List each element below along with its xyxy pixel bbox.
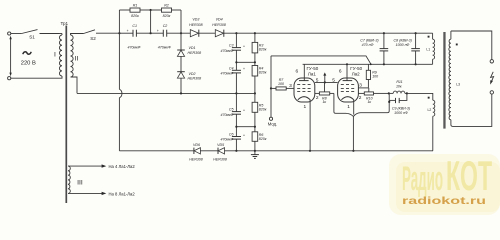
svg-text:+: + <box>243 133 245 137</box>
node gbus-C6 <box>235 150 237 152</box>
svg-text:820к: 820к <box>163 14 171 18</box>
node rail-R3 <box>254 32 256 34</box>
svg-text:HER308: HER308 <box>212 23 226 27</box>
node bus-R4 <box>254 92 256 94</box>
svg-text:5: 5 <box>332 78 335 84</box>
svg-text:820к: 820к <box>259 71 267 75</box>
resistor R9 <box>366 64 378 88</box>
wire: long vertical x=119.4 with hop over bus <box>119 10 122 151</box>
svg-text:Радио: Радио <box>402 159 443 198</box>
transformer Tr1 core <box>65 26 67 204</box>
svg-text:6: 6 <box>339 69 342 75</box>
capacitor C1 <box>127 24 141 49</box>
node bus-C4 <box>235 92 237 94</box>
svg-text:470мкФ: 470мкФ <box>220 113 233 117</box>
node rail-VD1 <box>180 32 182 34</box>
node R1-R2 <box>150 9 152 33</box>
watermark text Радио КОТ <box>402 152 492 199</box>
arrow to anode supply <box>323 72 326 82</box>
node rail-C3 <box>235 32 237 34</box>
tube La2 <box>332 64 362 110</box>
diode VD2 (vertical) <box>177 72 201 94</box>
svg-text:820к: 820к <box>259 107 267 111</box>
svg-text:820к: 820к <box>259 47 267 51</box>
220V double arrow <box>9 36 11 77</box>
svg-text:VD4: VD4 <box>216 18 223 22</box>
svg-text:HER308: HER308 <box>189 23 203 27</box>
node rail-C7 <box>383 32 385 34</box>
svg-text:VD3: VD3 <box>192 18 199 22</box>
wire pin5 La1-La2 <box>315 81 338 83</box>
antenna arrow <box>490 72 493 85</box>
capacitor C6 <box>220 127 245 151</box>
svg-text:L2: L2 <box>428 108 432 112</box>
terminal: AC input bottom <box>8 77 11 80</box>
wire: left vertical to Mod terminal <box>270 56 272 117</box>
svg-text:III: III <box>77 180 83 187</box>
svg-text:+: + <box>243 67 245 71</box>
node R10-choke <box>388 92 390 94</box>
svg-text:1000 пФ: 1000 пФ <box>396 43 410 47</box>
capacitor C5 <box>220 93 245 126</box>
capacitor C7 <box>360 33 388 64</box>
terminal RF out top <box>490 60 493 63</box>
node anode-C8 <box>415 63 417 65</box>
svg-text:КОТ: КОТ <box>446 152 492 199</box>
capacitor C8 <box>394 33 420 64</box>
node pin5 junction <box>324 81 326 83</box>
svg-text:220 В: 220 В <box>21 60 36 66</box>
resistor R6 <box>252 132 267 155</box>
svg-text:C2: C2 <box>163 24 168 28</box>
terminal: AC input top <box>8 32 11 35</box>
rung C3C4-R3R4 <box>235 53 256 66</box>
svg-text:470мкФ: 470мкФ <box>127 45 140 49</box>
svg-text:+: + <box>243 108 245 112</box>
svg-text:R2: R2 <box>164 4 169 8</box>
wire L3 bottom loop <box>451 94 492 126</box>
terminal Мод. <box>268 117 277 126</box>
svg-text:C4: C4 <box>229 66 234 70</box>
svg-text:C9 (КВИ-3): C9 (КВИ-3) <box>392 106 410 110</box>
wire: top terminal to S1 <box>11 33 22 35</box>
svg-text:1к: 1к <box>367 100 371 104</box>
wire choke node down <box>388 93 390 102</box>
winding L3 <box>449 31 460 120</box>
svg-text:820к: 820к <box>259 137 267 141</box>
node rail-C8 <box>415 32 417 34</box>
switch S2 <box>84 30 120 41</box>
resistor R7 <box>271 78 294 90</box>
svg-text:10к: 10к <box>396 85 402 89</box>
node bus-VD2 <box>180 92 182 94</box>
svg-text:1: 1 <box>347 104 350 110</box>
svg-text:C7 (КВИ-3): C7 (КВИ-3) <box>360 39 378 43</box>
resistor R5 <box>252 102 267 132</box>
output transformer core <box>443 32 445 129</box>
svg-text:470 пФ: 470 пФ <box>362 43 374 47</box>
resistor R8 <box>315 82 334 104</box>
node gbus-R6 <box>254 150 256 152</box>
diode VD3 <box>189 18 203 37</box>
svg-text:C8 (КВИ-3): C8 (КВИ-3) <box>394 39 412 43</box>
node Mod-R7 <box>270 87 272 89</box>
svg-text:HER308: HER308 <box>213 158 227 162</box>
bus y=93.4 (transformer return) <box>77 92 255 94</box>
switch S1 <box>22 30 60 40</box>
svg-text:Мод.: Мод. <box>268 122 277 127</box>
capacitor C2 <box>157 24 171 49</box>
wire La1 pin1 to ground bus <box>309 102 311 151</box>
label ГУ-50 Ла1 <box>306 66 318 76</box>
capacitor C4 <box>220 62 245 93</box>
svg-text:100: 100 <box>278 82 284 86</box>
cathode merge brace <box>334 93 389 150</box>
terminal RF out bottom <box>490 91 493 94</box>
choke with resistor R11 <box>389 80 407 93</box>
main HV rail y=33 <box>119 32 432 34</box>
svg-text:radiokot.ru: radiokot.ru <box>402 196 486 207</box>
winding I (primary) <box>11 34 62 79</box>
wire: II bottom to bus <box>71 77 78 93</box>
winding II (secondary) <box>71 34 84 78</box>
svg-text:HER308: HER308 <box>188 76 202 80</box>
node C9 tap <box>388 101 390 103</box>
ground <box>251 155 259 159</box>
svg-text:HER308: HER308 <box>188 51 202 55</box>
svg-text:2: 2 <box>316 95 319 101</box>
rung C5C6-R5R6 <box>235 126 256 128</box>
node anode-La2 <box>346 63 348 65</box>
svg-text:C5: C5 <box>229 108 234 112</box>
svg-text:На 8 Ла1-Ла2: На 8 Ла1-Ла2 <box>109 191 136 196</box>
svg-text:R1: R1 <box>133 4 138 8</box>
node rail-R1R2 <box>150 32 152 34</box>
svg-text:I: I <box>54 52 56 59</box>
svg-text:R11: R11 <box>396 80 402 84</box>
svg-text:HER308: HER308 <box>189 158 203 162</box>
resistor R4 <box>252 66 267 103</box>
svg-text:470мкФ: 470мкФ <box>220 138 233 142</box>
diode VD5 <box>213 143 227 162</box>
capacitor column C3 <box>220 33 245 62</box>
wire La2 pin3 <box>358 87 368 89</box>
svg-text:На 4 Ла1-Ла2: На 4 Ла1-Ла2 <box>109 164 136 169</box>
node choke-L2wire <box>406 92 408 94</box>
svg-text:Тр1: Тр1 <box>60 21 68 26</box>
svg-text:470мкФ: 470мкФ <box>220 49 233 53</box>
svg-text:ГУ-50: ГУ-50 <box>350 66 362 71</box>
svg-text:1: 1 <box>304 104 307 110</box>
svg-text:1000 пФ: 1000 пФ <box>394 111 408 115</box>
svg-text:+: + <box>157 29 159 33</box>
svg-text:Ла1: Ла1 <box>308 71 316 76</box>
node gbus-La1pin1 <box>309 150 311 152</box>
resistor R2 <box>151 4 181 34</box>
tube La1 <box>289 64 319 110</box>
svg-text:VD2: VD2 <box>189 72 196 76</box>
svg-text:VD6: VD6 <box>193 143 200 147</box>
diode VD1 (vertical) <box>177 33 201 71</box>
wire La2 pin1 <box>353 102 355 115</box>
label ГУ-50 Ла2 <box>350 66 362 76</box>
svg-text:470мкФ: 470мкФ <box>220 72 233 76</box>
capacitor C9 <box>389 93 410 114</box>
svg-text:2: 2 <box>359 95 362 101</box>
svg-text:1к: 1к <box>322 100 326 104</box>
svg-text:C3: C3 <box>229 44 234 48</box>
node rail-S2riser <box>118 32 120 34</box>
svg-text:+: + <box>127 29 129 33</box>
heater lead pin8 <box>68 191 135 196</box>
svg-text:3: 3 <box>289 83 292 89</box>
resistor R10 <box>358 88 388 104</box>
winding L2 <box>428 97 435 151</box>
svg-text:VD5: VD5 <box>217 143 224 147</box>
svg-text:C1: C1 <box>132 24 137 28</box>
svg-text:100: 100 <box>372 75 378 79</box>
svg-text:470мкФ: 470мкФ <box>158 45 171 49</box>
svg-text:VD1: VD1 <box>189 46 196 50</box>
node gbus-cathodes <box>352 150 354 152</box>
node anode-C7 <box>383 63 385 65</box>
svg-text:L3: L3 <box>456 82 460 86</box>
watermark background blob <box>389 154 500 215</box>
node anode-jog <box>370 63 372 65</box>
wire L3 top to terminal <box>451 31 492 60</box>
anode rail y=64.3 <box>303 63 433 65</box>
heater lead pin4 <box>68 164 135 169</box>
svg-text:L1: L1 <box>426 47 430 51</box>
svg-text:820к: 820к <box>131 14 139 18</box>
ground bus y=150.8 <box>119 150 433 152</box>
resistor R3 <box>252 33 267 53</box>
diode VD4 <box>212 18 226 37</box>
svg-text:6: 6 <box>296 69 299 75</box>
winding L1 <box>426 33 434 64</box>
svg-text:S2: S2 <box>90 36 96 41</box>
winding III <box>68 166 83 193</box>
resistor R1 <box>119 4 150 18</box>
label ~ <box>23 52 31 54</box>
diode VD6 <box>189 143 203 162</box>
svg-text:+: + <box>243 44 245 48</box>
svg-text:II: II <box>75 56 79 63</box>
svg-text:C6: C6 <box>229 133 234 137</box>
wire to L2 <box>407 93 433 100</box>
svg-text:Ла2: Ла2 <box>352 71 360 76</box>
wire: grid rail y=55.9 with jog <box>271 56 371 64</box>
svg-text:ГУ-50: ГУ-50 <box>306 66 318 71</box>
svg-text:S1: S1 <box>29 35 35 40</box>
